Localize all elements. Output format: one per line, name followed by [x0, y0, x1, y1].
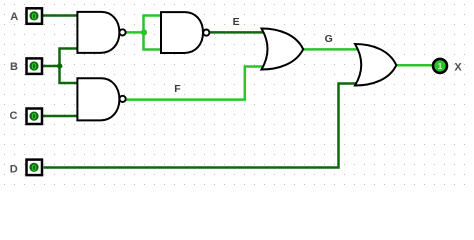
svg-text:0: 0 [31, 62, 36, 73]
svg-text:C: C [10, 110, 18, 122]
svg-text:1: 1 [438, 61, 443, 71]
svg-text:F: F [174, 83, 181, 95]
input A [27, 8, 43, 23]
wire F: U2 output to OR U4 lower input [126, 67, 264, 100]
or U4 body [262, 29, 304, 70]
wire C to U2 [43, 115, 79, 118]
nand U2 bubble [120, 96, 126, 102]
wire D to OR U5 lower input [44, 84, 359, 168]
wire junction up to U1 lower input [60, 49, 80, 67]
svg-text:D: D [10, 164, 18, 176]
nand U1 body [77, 12, 119, 53]
svg-text:0: 0 [31, 112, 36, 123]
wire E: U3 output to OR U4 [210, 31, 265, 34]
input D [27, 160, 43, 176]
wire U5 output to LED X [396, 64, 433, 67]
svg-text:X: X [454, 62, 462, 74]
wire A to U1 [43, 14, 79, 17]
wire B to junction [43, 65, 60, 68]
or U5 body [355, 44, 396, 86]
wire G: U4 output to OR U5 [303, 48, 359, 51]
nand U3 body [161, 12, 203, 53]
wire U1 output to junction [125, 31, 144, 34]
wire junction down to U2 upper input [60, 66, 80, 83]
svg-text:0: 0 [31, 11, 36, 22]
node U1 output junction [141, 29, 147, 35]
nand U2 body [77, 78, 119, 120]
wire junction to U3 upper input [144, 16, 164, 33]
input C [27, 109, 43, 125]
output LED X [433, 59, 447, 73]
wire junction to U3 lower input [144, 32, 164, 49]
node B junction [57, 63, 62, 68]
input B [27, 58, 43, 74]
svg-text:0: 0 [31, 163, 36, 174]
svg-text:A: A [10, 11, 18, 23]
nand U1 bubble [119, 29, 125, 35]
nand U3 bubble [203, 29, 209, 35]
svg-text:B: B [10, 61, 18, 73]
svg-text:G: G [325, 33, 333, 45]
svg-text:E: E [233, 16, 240, 28]
